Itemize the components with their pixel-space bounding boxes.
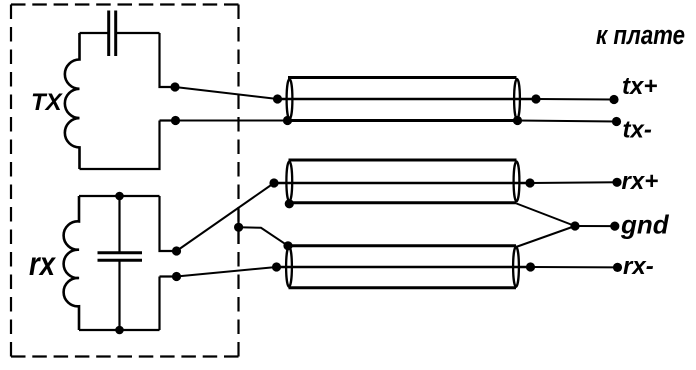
wire tx- coil to cable1 shield <box>176 120 288 122</box>
capacitor C-tx <box>109 11 116 57</box>
node cable3 shield left <box>283 241 292 250</box>
dash segment through shield tap <box>237 210 239 244</box>
wire box edge to cable3 shield <box>239 227 288 246</box>
wire rx+ output <box>530 181 617 184</box>
svg-text:tx+: tx+ <box>622 73 657 100</box>
node RX bottom terminal <box>172 272 181 281</box>
svg-text:к плате: к плате <box>596 20 685 50</box>
wire rx- coil to cable3 core <box>177 267 277 277</box>
cable 1 shield (tx pair) <box>287 78 520 121</box>
node tx- <box>612 117 621 126</box>
node cable1 core right <box>531 94 540 103</box>
svg-text:rx: rx <box>29 245 56 282</box>
wire cable2 shield to gnd junction <box>517 204 576 227</box>
svg-text:gnd: gnd <box>620 210 670 240</box>
wire cable 1 center conductor <box>278 98 537 101</box>
node cable2 core right <box>525 178 534 187</box>
wire TX loop top <box>80 32 160 34</box>
wire rx- output <box>531 266 618 268</box>
node cable1 shield right <box>513 116 522 125</box>
node rx- <box>613 263 622 272</box>
node RX cap top <box>115 192 124 201</box>
node TX bottom terminal <box>171 116 180 125</box>
node gnd junction <box>570 221 579 230</box>
svg-text:tx-: tx- <box>623 117 652 144</box>
cable 2 shield (rx+) <box>286 160 519 203</box>
wire RX loop top <box>79 195 160 197</box>
wire RX cap branch <box>118 196 120 330</box>
wire tx+ coil to cable1 core <box>175 87 278 99</box>
node tx+ <box>609 95 618 104</box>
node cable1 shield left <box>283 116 292 125</box>
wire TX loop right/bottom <box>80 33 176 169</box>
node TX top terminal <box>170 82 179 91</box>
capacitor C-rx <box>98 253 143 260</box>
node RX cap bottom <box>115 326 124 335</box>
svg-text:TX: TX <box>31 89 64 116</box>
wire RX loop bottom <box>79 329 160 331</box>
wire tx- output <box>518 121 617 122</box>
coil RX <box>64 196 79 330</box>
wire gnd output <box>575 225 615 227</box>
node cable1 core left <box>273 94 282 103</box>
wire cable 2 center conductor <box>274 182 530 185</box>
wire cable 3 center conductor <box>277 266 531 269</box>
node cable3 core left <box>272 262 281 271</box>
node cable2 shield left <box>285 199 294 208</box>
wire tx+ output <box>536 98 614 101</box>
cable 3 shield (rx-) <box>286 246 519 288</box>
svg-text:rx-: rx- <box>623 253 654 280</box>
wire rx+ coil to cable2 core <box>177 183 275 251</box>
node gnd <box>610 222 619 231</box>
node shield tap on box edge <box>234 223 243 232</box>
coil TX <box>65 33 80 169</box>
node cable2 core left <box>269 178 278 187</box>
node cable3 core right <box>526 262 535 271</box>
wire RX loop right <box>160 196 177 330</box>
wire cable3 shield to gnd junction <box>516 226 575 247</box>
node rx+ <box>612 178 621 187</box>
node RX top terminal <box>172 246 181 255</box>
dashed enclosure box <box>11 5 239 357</box>
svg-text:rx+: rx+ <box>622 168 659 195</box>
